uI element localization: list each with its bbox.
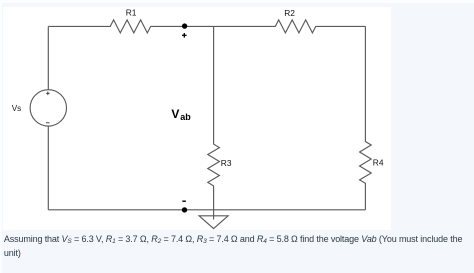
svg-text:ab: ab: [180, 112, 191, 122]
svg-text:Vs: Vs: [12, 104, 22, 113]
svg-text:R2: R2: [284, 8, 295, 18]
svg-text:V: V: [171, 107, 179, 121]
svg-text:R1: R1: [126, 8, 137, 18]
svg-text:R4: R4: [373, 158, 384, 168]
svg-text:R3: R3: [221, 158, 232, 168]
